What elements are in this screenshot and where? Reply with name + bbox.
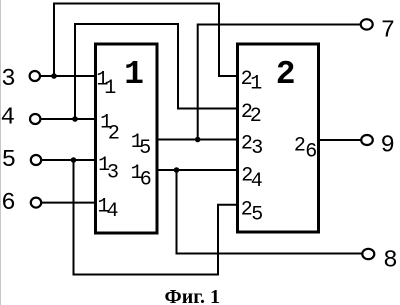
terminal 6 [1, 190, 41, 217]
svg-text:1: 1 [124, 56, 144, 93]
wire pin 2_6 to terminal 9 [317, 139, 361, 141]
pin 2_2 [241, 101, 262, 128]
pin 1_2 [100, 111, 120, 145]
pin 1_5 [131, 131, 151, 160]
pin 2_5 [241, 199, 264, 227]
wire pin 1_6 to pin 2_4 [156, 169, 238, 171]
terminal 9 [361, 133, 395, 160]
pin 2_1 [241, 68, 263, 96]
svg-text:5: 5 [2, 147, 16, 174]
wire terminal 4 to pin 1_2 [40, 118, 97, 120]
pin 2_4 [241, 165, 263, 193]
wire net 3 to pin 2_1 (top route) [54, 4, 238, 77]
svg-text:7: 7 [381, 17, 395, 44]
wire pin 1_5 to pin 2_3 [156, 139, 238, 141]
wire terminal 6 to pin 1_4 [41, 202, 97, 204]
wire terminal 5 to pin 1_3 [41, 159, 97, 161]
terminal 3 [1, 66, 40, 93]
wire net 4 to pin 2_2 (second top route) [75, 24, 238, 119]
svg-text:9: 9 [381, 133, 395, 160]
terminal 4 [1, 105, 41, 132]
terminal 8 [362, 248, 397, 275]
pin 2_3 [241, 132, 263, 159]
svg-text:6: 6 [140, 168, 152, 191]
svg-text:1: 1 [104, 77, 116, 100]
svg-text:3: 3 [107, 161, 119, 184]
svg-text:6: 6 [305, 141, 317, 164]
pin 1_3 [98, 154, 119, 185]
pin 1_6 [131, 162, 152, 191]
svg-text:2: 2 [276, 56, 296, 93]
wire net 5 to pin 2_5 (bottom route) [74, 160, 239, 275]
svg-text:5: 5 [251, 203, 263, 226]
svg-text:3: 3 [251, 137, 263, 160]
svg-text:4: 4 [107, 200, 119, 223]
scan edge artifact [0, 0, 2, 305]
junction on terminal 3 wire [51, 73, 57, 79]
svg-text:3: 3 [1, 66, 15, 93]
svg-text:5: 5 [139, 137, 151, 160]
junction on terminal 5 wire [71, 157, 77, 163]
svg-text:2: 2 [108, 122, 120, 145]
svg-text:Фиг. 1: Фиг. 1 [165, 286, 221, 305]
junction on wire 1_6-2_4 [174, 167, 180, 173]
block 1 [96, 44, 158, 233]
block 2 [238, 44, 319, 232]
wire node 1_5 to terminal 7 [198, 25, 361, 140]
wire node 1_6 to terminal 8 [177, 170, 363, 254]
svg-text:6: 6 [1, 190, 15, 217]
junction on terminal 4 wire [72, 116, 78, 122]
svg-text:2: 2 [250, 105, 262, 128]
terminal 5 [2, 147, 42, 174]
svg-text:1: 1 [250, 72, 262, 95]
pin 1_1 [96, 69, 116, 101]
svg-text:8: 8 [383, 248, 397, 275]
terminal 7 [361, 17, 396, 44]
svg-text:4: 4 [1, 105, 15, 132]
pin 1_4 [98, 195, 119, 223]
junction on wire 1_5-2_3 [195, 137, 201, 143]
svg-text:2: 2 [294, 134, 306, 157]
wire terminal 3 to pin 1_1 [40, 75, 98, 77]
pin 2_6 [294, 134, 317, 163]
svg-text:4: 4 [251, 170, 263, 193]
